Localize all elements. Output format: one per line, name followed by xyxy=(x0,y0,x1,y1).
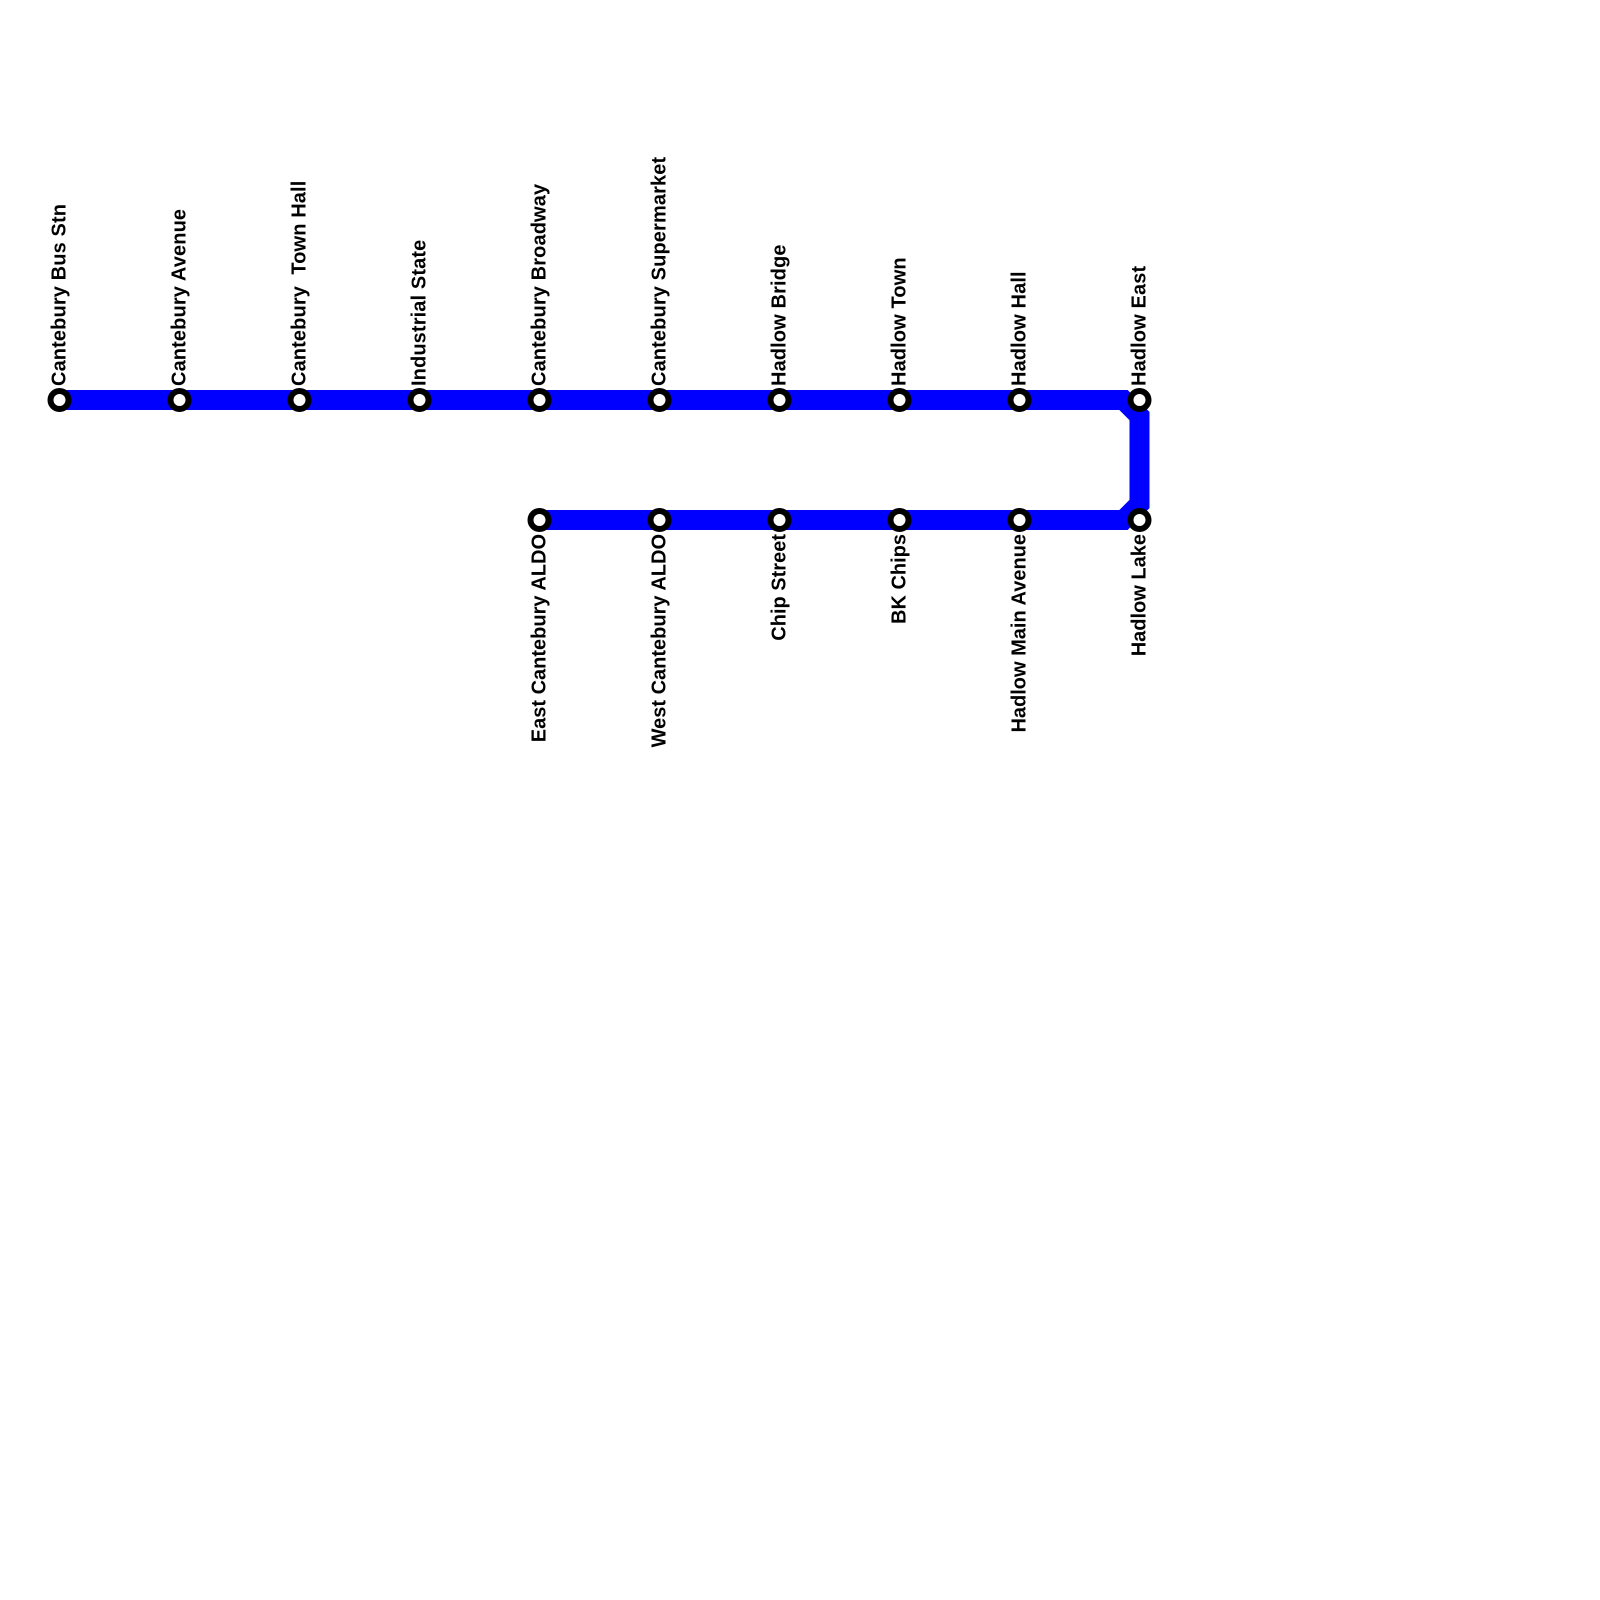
station circle: Chip Street xyxy=(768,508,792,532)
station circle: Hadlow Lake xyxy=(1128,508,1152,532)
station circle: Cantebury Broadway xyxy=(528,388,552,412)
route line (blue) xyxy=(60,400,1140,520)
svg-text:East Cantebury ALDO: East Cantebury ALDO xyxy=(529,534,551,742)
svg-text:Hadlow Town: Hadlow Town xyxy=(889,257,911,386)
svg-text:Cantebury Bus Stn: Cantebury Bus Stn xyxy=(49,204,71,386)
station circle: Industrial State xyxy=(408,388,432,412)
station circle: Cantebury Supermarket xyxy=(648,388,672,412)
svg-text:Industrial State: Industrial State xyxy=(409,240,431,386)
station circle: Cantebury Avenue xyxy=(168,388,192,412)
svg-text:Chip Street: Chip Street xyxy=(769,534,791,641)
station circle: Hadlow Bridge xyxy=(768,388,792,412)
station circle: BK Chips xyxy=(888,508,912,532)
svg-text:West Cantebury ALDO: West Cantebury ALDO xyxy=(649,534,671,747)
svg-text:Hadlow Bridge: Hadlow Bridge xyxy=(769,244,791,386)
station circle: Hadlow East xyxy=(1128,388,1152,412)
station circle: Cantebury Town Hall xyxy=(288,388,312,412)
svg-text:Cantebury Broadway: Cantebury Broadway xyxy=(529,183,551,386)
svg-text:Hadlow Main Avenue: Hadlow Main Avenue xyxy=(1009,534,1031,733)
station circle: Hadlow Main Avenue xyxy=(1008,508,1032,532)
station circle: Cantebury Bus Stn xyxy=(48,388,72,412)
station circle: Hadlow Hall xyxy=(1008,388,1032,412)
station circle: Hadlow Town xyxy=(888,388,912,412)
svg-text:Cantebury Town Hall: Cantebury Town Hall xyxy=(289,181,311,386)
station circle: East Cantebury ALDO xyxy=(528,508,552,532)
svg-text:Hadlow Lake: Hadlow Lake xyxy=(1129,534,1151,656)
station circle: West Cantebury ALDO xyxy=(648,508,672,532)
svg-text:Cantebury Avenue: Cantebury Avenue xyxy=(169,209,191,386)
svg-text:Hadlow Hall: Hadlow Hall xyxy=(1009,271,1031,386)
svg-text:BK Chips: BK Chips xyxy=(889,534,911,624)
svg-text:Hadlow East: Hadlow East xyxy=(1129,266,1151,386)
svg-text:Cantebury Supermarket: Cantebury Supermarket xyxy=(649,157,671,386)
